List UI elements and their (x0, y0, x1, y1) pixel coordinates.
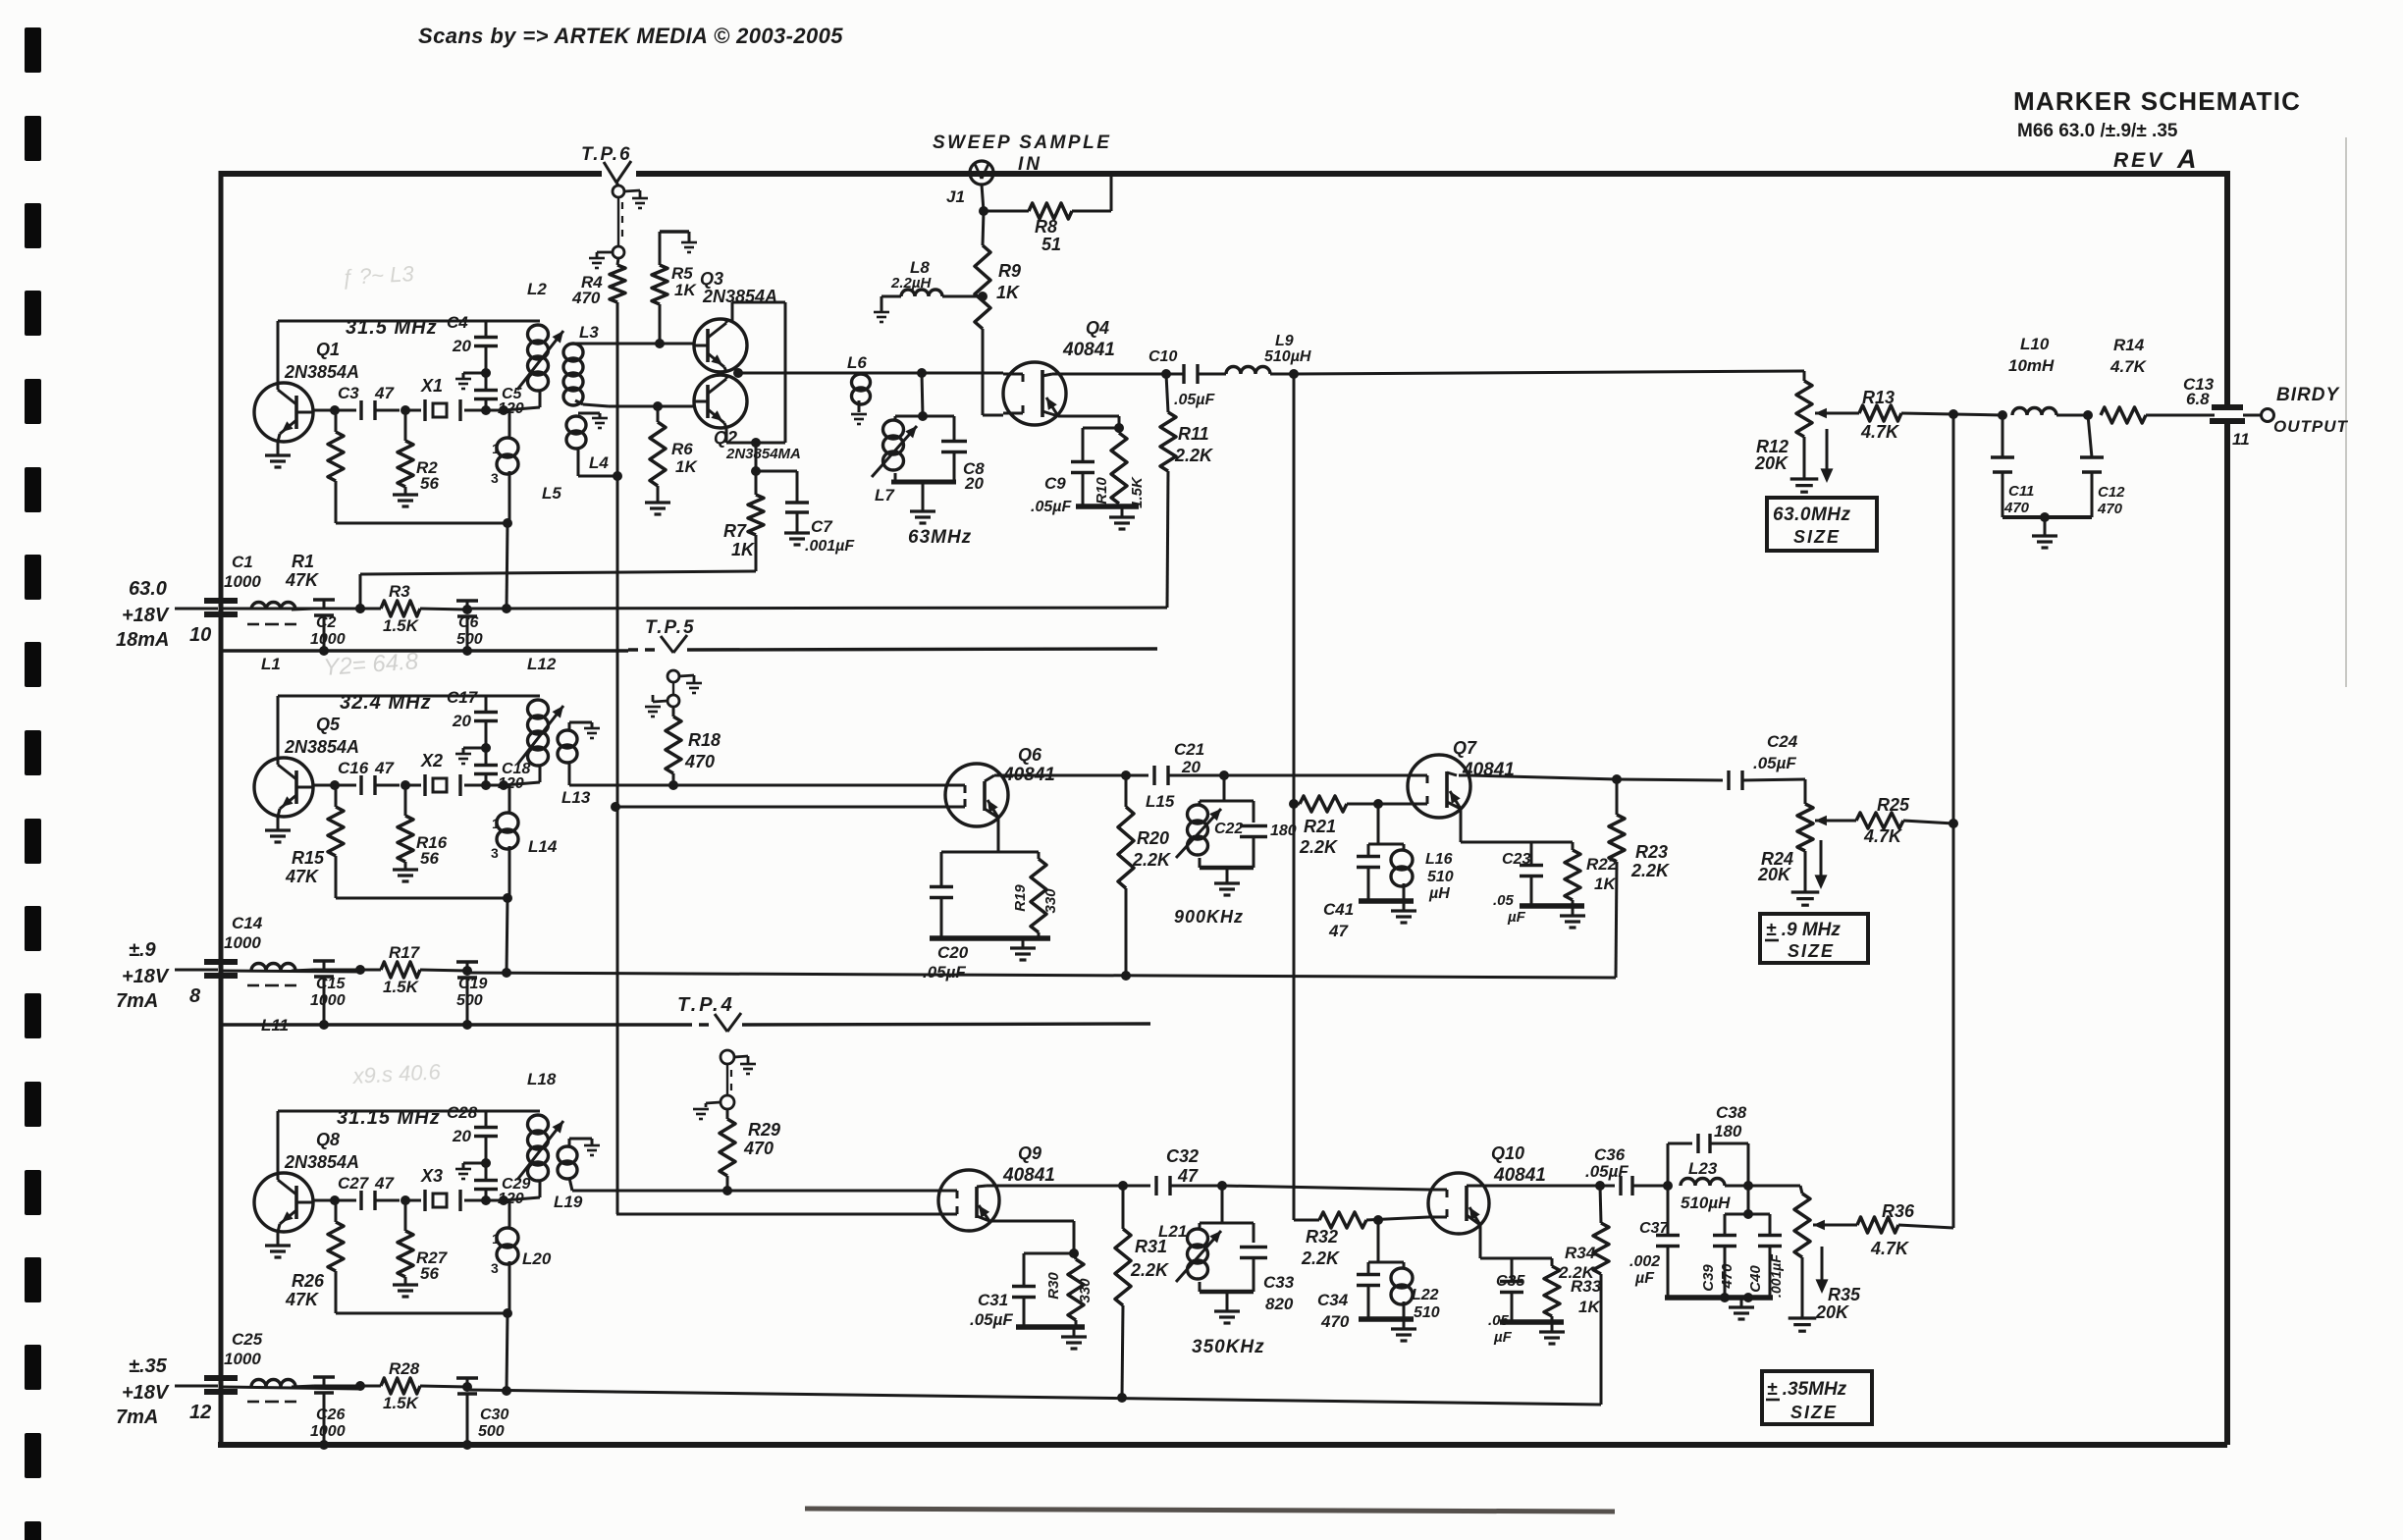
capacitor C9 .05µF (1083, 427, 1119, 430)
wire C11/C12 common (2002, 515, 2092, 519)
inductor L15 (variable) (1200, 800, 1254, 803)
capacitor C39 470 (1725, 1213, 1748, 1216)
svg-text:1: 1 (492, 816, 500, 831)
inductor L22 510 (1378, 1261, 1404, 1264)
svg-text:.05µF: .05µF (1753, 754, 1796, 772)
capacitor C38 180 (1667, 1143, 1670, 1186)
node R6 junction on Q2 base rail (653, 401, 663, 411)
resistor R10 1.5K (1118, 428, 1121, 433)
svg-text:47K: 47K (285, 1290, 320, 1309)
node Q8 base junction (330, 1195, 340, 1205)
svg-text:2N3854A: 2N3854A (284, 362, 359, 382)
svg-text:2.2µH: 2.2µH (890, 275, 932, 292)
svg-text:X1: X1 (420, 376, 443, 396)
node C-divider midpoint (481, 743, 491, 753)
svg-text:510: 510 (1427, 869, 1454, 885)
wire ch1 signal vertical bus x=1318 (1293, 374, 1296, 1220)
resistor R26 47K (335, 1200, 338, 1222)
wire Q3 collector loop (731, 302, 734, 323)
svg-text:47: 47 (374, 384, 395, 402)
svg-text:47: 47 (374, 1174, 395, 1193)
ground C-divider midpoint (463, 1162, 486, 1165)
inductor L5 (508, 410, 511, 438)
wire buffer output to Q4 gate1 (738, 372, 1003, 375)
node rail junction left of R28 (355, 1381, 365, 1391)
feedthrough capacitor C14 1000 (204, 959, 238, 965)
wire C34/L22 stem (1377, 1220, 1380, 1262)
wire Q8 collector to tank top (277, 1111, 280, 1174)
svg-text:.05: .05 (1493, 892, 1515, 909)
svg-text:ƒ ?~ L3: ƒ ?~ L3 (341, 261, 415, 290)
node crystal output junction (481, 405, 491, 415)
svg-text:R15: R15 (292, 848, 325, 868)
capacitor C37 .002µF (1667, 1186, 1670, 1235)
svg-text:2.2K: 2.2K (1299, 837, 1339, 857)
svg-text:10mH: 10mH (2008, 356, 2055, 375)
capacitor C24 .05µF (1617, 779, 1723, 780)
svg-text:R25: R25 (1877, 795, 1910, 815)
resistor R3 1.5K (381, 601, 420, 616)
svg-text:470: 470 (2003, 500, 2030, 516)
svg-text:C10: C10 (1148, 348, 1177, 365)
resistor R19 330 (1038, 852, 1041, 859)
crystal X2 (405, 784, 421, 787)
capacitor C11 470 (2002, 415, 2004, 457)
svg-text:µF: µF (1493, 1329, 1513, 1346)
ground Q1 emitter (277, 442, 280, 455)
node C-divider midpoint (481, 368, 491, 378)
resistor R34 2.2K (1600, 1186, 1601, 1223)
ground L4 top (592, 417, 608, 420)
svg-text:L4: L4 (589, 453, 609, 472)
svg-text:.05µF: .05µF (970, 1310, 1013, 1329)
wire tank stem ch3 (1221, 1186, 1224, 1223)
svg-text:6.8: 6.8 (2186, 390, 2210, 408)
svg-text:L16: L16 (1425, 851, 1453, 868)
svg-text:47: 47 (1177, 1166, 1199, 1186)
capacitor C3 47 (359, 400, 362, 420)
svg-text:C1: C1 (232, 553, 253, 571)
svg-text:L20: L20 (522, 1249, 552, 1268)
svg-text:330: 330 (1077, 1278, 1094, 1303)
wire tank to Q7 gate1 (1224, 774, 1408, 777)
wire Q4 source (1058, 415, 1119, 418)
resistor R29 470 (726, 1109, 729, 1119)
capacitor C31 .05µF (1024, 1252, 1074, 1255)
wire tank stem (922, 373, 923, 416)
ground C-divider midpoint (463, 372, 486, 375)
resistor R16 56 (404, 785, 407, 816)
wire tank to Q10 gate1 (1222, 1186, 1428, 1190)
wire ch1 output to R12 (1294, 371, 1804, 374)
wire L13 to Q6 gate1 (569, 784, 945, 787)
svg-text:L5: L5 (542, 484, 561, 503)
node ±.35 +18V input lead (175, 1385, 218, 1388)
svg-text:47K: 47K (285, 867, 320, 886)
svg-text:20K: 20K (1754, 453, 1789, 473)
node crystal output junction (481, 1195, 491, 1205)
wire tank bottom ch2 (1200, 866, 1254, 871)
capacitor C30 500 bypass (466, 1378, 469, 1387)
svg-text:20: 20 (964, 474, 984, 493)
wire L3 bottom to Q2 base (583, 404, 609, 406)
resistor R23 2.2K (1616, 779, 1619, 815)
inductor L2 tank (variable) (528, 325, 549, 344)
capacitor C4 20 (485, 345, 488, 373)
ground C41/L16 bus (1359, 898, 1414, 904)
svg-text:T.P.4: T.P.4 (677, 994, 735, 1016)
svg-text:R20: R20 (1137, 828, 1169, 848)
wire Q5 base line (313, 784, 356, 787)
node 63.0 +18V input lead (175, 608, 218, 611)
node ±.9 +18V input lead (175, 969, 218, 972)
wire oscillator feedback bottom (336, 897, 507, 900)
svg-text:R13: R13 (1862, 388, 1895, 407)
svg-text:.05µF: .05µF (1585, 1162, 1629, 1181)
connector J1 sweep sample jack (970, 161, 993, 185)
svg-text:L7: L7 (875, 486, 895, 504)
wire output vertical bus x=1990 (1952, 415, 1955, 1228)
svg-text:L23: L23 (1688, 1159, 1718, 1178)
capacitor C22 180 (1253, 801, 1255, 823)
svg-text:R6: R6 (671, 440, 693, 458)
svg-text:± .9 MHz: ± .9 MHz (1766, 920, 1841, 940)
svg-text:.001µF: .001µF (1768, 1254, 1784, 1298)
svg-text:1000: 1000 (224, 1350, 261, 1368)
svg-text:BIRDY: BIRDY (2276, 385, 2340, 405)
node R5 junction on Q3 base rail (655, 339, 665, 348)
wire Q10 source (1479, 1225, 1482, 1258)
transistor Q5 2N3854A oscillator (254, 758, 313, 817)
svg-text:R11: R11 (1178, 424, 1209, 444)
svg-text:L10: L10 (2020, 335, 2050, 353)
capacitor C17 20 (485, 720, 488, 748)
svg-text:2.2K: 2.2K (1301, 1248, 1341, 1268)
node output junction Q2/Q3 (733, 368, 743, 378)
ground C11/C12 (2044, 517, 2047, 536)
svg-text:R35: R35 (1828, 1285, 1861, 1304)
capacitor C6 500 bypass (466, 601, 469, 610)
svg-text:1K: 1K (1578, 1298, 1601, 1316)
svg-text:C3: C3 (338, 384, 359, 402)
capacitor C32 47 (999, 1185, 1150, 1188)
ground R6 (645, 501, 670, 504)
box ±.35 MHz SIZE (1762, 1371, 1872, 1424)
svg-text:500: 500 (456, 992, 483, 1009)
ground C31/R30 bus (1016, 1324, 1085, 1330)
svg-text:470: 470 (2097, 501, 2123, 517)
box 63.0MHz SIZE (1767, 498, 1877, 551)
svg-text:C32: C32 (1166, 1146, 1199, 1166)
svg-text:470: 470 (571, 289, 601, 307)
wire ch1 oscillator bus from T.P.6 to mixer gates (616, 302, 619, 1214)
resistor R14 4.7K (2101, 407, 2146, 423)
ground C-divider midpoint (463, 747, 486, 750)
svg-text:C17: C17 (447, 688, 479, 707)
svg-text:10: 10 (189, 624, 211, 646)
svg-text:+18V: +18V (122, 966, 170, 987)
transistor Q10 40841 mixer (1428, 1173, 1489, 1234)
capacitor C7 .001µF (756, 470, 797, 473)
ground L13 top (584, 727, 600, 730)
capacitor C21 20 (1008, 774, 1148, 777)
ground C7 (784, 531, 810, 534)
ground C9/R10 bus (1076, 504, 1139, 509)
svg-text:R8: R8 (1035, 217, 1057, 237)
svg-text:C31: C31 (978, 1291, 1008, 1309)
ground C20/R19 bus (930, 935, 1050, 941)
inductor L20 (508, 1200, 511, 1228)
svg-text:L14: L14 (528, 837, 558, 856)
svg-text:32.4 MHz: 32.4 MHz (340, 692, 432, 714)
wire tank bottom bar (891, 480, 956, 485)
svg-text:C25: C25 (232, 1330, 263, 1349)
feedthrough capacitor C25 1000 (204, 1375, 238, 1381)
svg-text:SIZE: SIZE (1788, 941, 1835, 961)
ground 350KHz tank (1226, 1292, 1229, 1311)
inductor L23 510µH (1681, 1179, 1725, 1186)
svg-text:8: 8 (189, 985, 201, 1007)
resistor R22 1K (1572, 842, 1575, 850)
svg-text:J1: J1 (946, 187, 965, 206)
svg-text:4.7K: 4.7K (1860, 422, 1900, 442)
feedthrough capacitor C1 1000 (204, 598, 238, 604)
svg-text:56: 56 (420, 849, 439, 868)
svg-text:C24: C24 (1767, 732, 1798, 751)
node rail junction left of R17 (355, 965, 365, 975)
svg-text:.001µF: .001µF (805, 538, 855, 555)
inductor L14 (508, 785, 511, 813)
svg-text:470: 470 (1719, 1263, 1735, 1290)
capacitor C23 .05µF (1530, 842, 1533, 864)
svg-text:7mA: 7mA (116, 990, 158, 1012)
inductor L18 tank (variable) (528, 1115, 549, 1134)
node L4 to oscillator bus (613, 471, 622, 481)
svg-text:Q10: Q10 (1491, 1143, 1524, 1163)
node oscillator bus to Q6 gate2 (611, 802, 620, 812)
svg-text:56: 56 (420, 1264, 439, 1283)
svg-text:+18V: +18V (122, 1382, 170, 1404)
svg-text:C4: C4 (447, 313, 468, 332)
wire rail to R3 (314, 608, 360, 611)
svg-text:X2: X2 (420, 751, 443, 770)
resistor R33 1K (1551, 1258, 1554, 1266)
svg-text:L3: L3 (579, 323, 599, 342)
wire L19 to Q9 gate1 (572, 1190, 938, 1193)
svg-text:R1: R1 (292, 552, 314, 571)
svg-text:31.15 MHz: 31.15 MHz (337, 1107, 441, 1129)
svg-text:1.5K: 1.5K (383, 616, 420, 635)
inductor L8 2.2µH (874, 311, 889, 314)
wire tank stem ch2 (1223, 775, 1226, 801)
svg-text:L13: L13 (561, 788, 591, 807)
svg-text:L19: L19 (554, 1193, 583, 1211)
svg-text:L1: L1 (261, 655, 281, 673)
node crystal output junction (481, 780, 491, 790)
bottom page smudge artifact (805, 1509, 1615, 1512)
svg-text:63.0MHz: 63.0MHz (1773, 504, 1851, 525)
capacitor C28 20 (485, 1136, 488, 1163)
svg-text:MARKER SCHEMATIC: MARKER SCHEMATIC (2013, 86, 2301, 116)
capacitor C26 1000 bypass (323, 1377, 326, 1386)
wire Q6 source (997, 818, 1000, 852)
node L8 junction (978, 292, 988, 301)
svg-text:2.2K: 2.2K (1558, 1263, 1596, 1282)
inductor L12 tank (variable) (528, 700, 549, 718)
node Q1 base junction (330, 405, 340, 415)
node L9 output junction (1289, 369, 1299, 379)
resistor R5 1K (652, 265, 667, 304)
wire oscillator feedback bottom (336, 1312, 507, 1315)
svg-text:Q8: Q8 (316, 1130, 340, 1149)
adjust arrow R24 (1820, 840, 1823, 879)
svg-text:OUTPUT: OUTPUT (2273, 417, 2349, 436)
svg-text:R18: R18 (688, 730, 721, 750)
wire ch1 ground line (221, 649, 628, 652)
svg-text:40841: 40841 (1062, 340, 1115, 360)
svg-text:C34: C34 (1317, 1291, 1349, 1309)
svg-text:C35: C35 (1496, 1273, 1525, 1290)
svg-text:500: 500 (478, 1423, 505, 1440)
wire C41/L16 stem (1377, 804, 1380, 844)
svg-text:µF: µF (1507, 909, 1526, 926)
border bottom edge (218, 1442, 2227, 1448)
svg-text:2.2K: 2.2K (1132, 850, 1172, 870)
svg-text:1: 1 (492, 1231, 500, 1247)
transistor Q2 2N3854A (694, 375, 747, 428)
potentiometer R12 20K (1803, 371, 1806, 381)
svg-text:C16: C16 (338, 759, 369, 777)
svg-text:20: 20 (452, 1127, 471, 1145)
capacitor C5 120 (485, 398, 488, 410)
svg-text:R30: R30 (1045, 1272, 1062, 1300)
svg-text:470: 470 (1320, 1312, 1350, 1331)
svg-text:.05µF: .05µF (1174, 392, 1215, 408)
svg-text:C37: C37 (1639, 1220, 1669, 1237)
wire oscillator feedback bottom (336, 522, 507, 525)
resistor R11 2.2K (1161, 369, 1171, 379)
wire R36 up to output bus (1952, 1220, 1955, 1228)
svg-text:R14: R14 (2113, 336, 2145, 354)
svg-text:470: 470 (684, 752, 715, 771)
svg-text:M66 63.0 /±.9/± .35: M66 63.0 /±.9/± .35 (2017, 121, 2178, 141)
svg-text:R21: R21 (1304, 817, 1336, 836)
svg-text:510µH: 510µH (1264, 348, 1311, 365)
svg-text:12: 12 (189, 1402, 211, 1423)
capacitor C36 .05µF (1600, 1185, 1615, 1188)
svg-text:510µH: 510µH (1681, 1194, 1731, 1212)
resistor R36 4.7K (1838, 1224, 1857, 1227)
svg-text:R7: R7 (723, 521, 747, 541)
resistor R28 1.5K (381, 1378, 420, 1394)
capacitor C29 120 (485, 1189, 488, 1200)
svg-text:900KHz: 900KHz (1174, 907, 1244, 927)
potentiometer R24 20K (1804, 779, 1807, 804)
svg-text:Q9: Q9 (1018, 1143, 1041, 1163)
svg-text:C9: C9 (1044, 474, 1066, 493)
svg-text:±.9: ±.9 (129, 939, 157, 961)
wire Q10 drain output (1478, 1185, 1489, 1188)
svg-text:2N3854A: 2N3854A (284, 1152, 359, 1172)
node R25 on output bus (1949, 819, 1958, 828)
svg-text:µH: µH (1428, 885, 1450, 902)
node R20 on +18V rail (1121, 971, 1131, 981)
resistor R8 51 (984, 210, 1029, 213)
node 350KHz tank tap (1217, 1181, 1227, 1191)
wire Q2 emitter to R7 node (725, 429, 728, 443)
svg-text:R17: R17 (389, 943, 421, 962)
svg-text:C20: C20 (937, 943, 969, 962)
svg-text:C2: C2 (316, 614, 337, 631)
wire +18V rail ch3 (221, 1387, 360, 1389)
svg-text:11: 11 (2232, 430, 2250, 449)
inductor L19 coupling (558, 1146, 577, 1164)
svg-text:x9.s 40.6: x9.s 40.6 (351, 1059, 442, 1089)
capacitor C16 47 (359, 775, 362, 795)
transistor Q4 40841 mixer (1003, 362, 1066, 425)
svg-text:R34: R34 (1565, 1244, 1596, 1262)
svg-text:20: 20 (1181, 758, 1201, 776)
capacitor C2 1000 bypass (323, 600, 326, 609)
capacitor C35 .05µF (1511, 1258, 1514, 1280)
inductor L10 10mH (2012, 408, 2056, 416)
node 63MHz tank tap (917, 368, 927, 378)
svg-text:1.5K: 1.5K (1129, 476, 1146, 508)
capacitor C34 470 (1368, 1261, 1378, 1264)
svg-text:µF: µF (1634, 1270, 1655, 1287)
svg-text:C12: C12 (2098, 484, 2125, 501)
svg-text:C6: C6 (458, 614, 479, 631)
wire Q1 base line (313, 409, 356, 412)
svg-text:3: 3 (491, 470, 499, 486)
node R16 top junction (400, 780, 410, 790)
node R7/C7 junction (755, 443, 758, 471)
svg-text:C22: C22 (1214, 821, 1243, 837)
svg-text:Q3: Q3 (700, 269, 723, 289)
ground R35 (1801, 1257, 1804, 1318)
svg-text:L11: L11 (261, 1016, 289, 1035)
svg-text:Scans by => ARTEK MEDIA © 200: Scans by => ARTEK MEDIA © 2003-2005 (418, 24, 843, 48)
resistor R4 470 (617, 258, 618, 265)
capacitor C8 20 (923, 415, 954, 418)
node R7 return on rail (355, 604, 365, 613)
node Q5 base junction (330, 780, 340, 790)
node C11/C12 ground junction (2040, 512, 2050, 522)
node 900KHz tank tap (1219, 770, 1229, 780)
svg-text:L6: L6 (847, 353, 867, 372)
svg-text:C11: C11 (2008, 483, 2034, 500)
ground R12 (1803, 437, 1806, 479)
svg-text:2N3854MA: 2N3854MA (725, 446, 801, 462)
wire Q6 source bar (941, 851, 1039, 854)
capacitor C13 6.8 output (2212, 404, 2243, 410)
svg-text:470: 470 (743, 1139, 774, 1158)
node C36 to tank junction (1663, 1181, 1673, 1191)
wire +18V rail ch1 (221, 608, 360, 611)
svg-text:350KHz: 350KHz (1192, 1337, 1265, 1357)
resistor R13 4.7K (1840, 412, 1859, 415)
svg-text:1K: 1K (674, 281, 697, 299)
node Q2 emitter junction (751, 438, 761, 448)
inductor L16 510µH (1378, 843, 1404, 846)
svg-text:1.5K: 1.5K (383, 978, 420, 996)
potentiometer R35 20K (1800, 1186, 1802, 1194)
svg-text:56: 56 (420, 474, 439, 493)
wire rail to R28 (314, 1385, 360, 1388)
svg-text:820: 820 (1265, 1295, 1294, 1313)
svg-text:2.2K: 2.2K (1630, 861, 1671, 880)
adjust arrow R35 (1821, 1247, 1824, 1284)
